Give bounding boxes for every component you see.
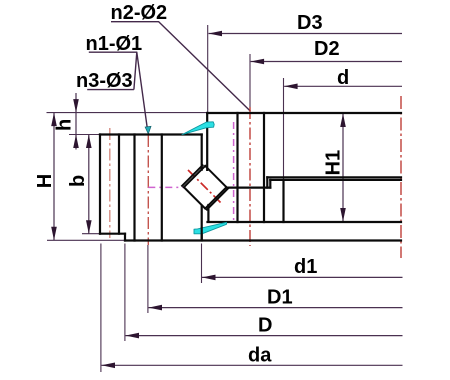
arrow da xyxy=(102,363,116,369)
raceway line upper-left (double) xyxy=(182,165,203,186)
dim D3 xyxy=(209,33,403,35)
svg-text:b: b xyxy=(67,175,89,187)
ext D1 vertical xyxy=(147,245,149,313)
dim H1 xyxy=(342,114,344,222)
ext top surface left xyxy=(47,112,208,114)
seam step horizontal xyxy=(227,187,271,189)
svg-text:H: H xyxy=(34,174,56,188)
ext inner-ring top left xyxy=(69,134,100,136)
dim da xyxy=(102,364,403,366)
ext bottom left (recess) xyxy=(82,233,100,235)
n3 hole right wall xyxy=(118,135,120,234)
dim h xyxy=(75,93,77,150)
arrows H xyxy=(51,113,57,127)
shelf and leader n2 xyxy=(111,22,251,112)
svg-text:n2-Ø2: n2-Ø2 xyxy=(111,2,168,24)
centerline n3 xyxy=(109,128,111,238)
centerline n2 xyxy=(249,107,251,246)
inner ring bore edge xyxy=(99,135,101,234)
svg-text:da: da xyxy=(248,345,272,367)
step vertical xyxy=(124,234,126,241)
n2 hole right wall xyxy=(263,113,265,222)
seam upper line xyxy=(267,176,401,178)
inner ring right face lower xyxy=(201,206,203,241)
outer ring top surface xyxy=(207,112,401,114)
dim D2 xyxy=(251,61,402,63)
magenta roller horizontal centerline xyxy=(148,186,183,188)
dim d1 xyxy=(202,276,403,278)
arrows b xyxy=(86,135,92,149)
centerline right section xyxy=(400,96,402,258)
ext D vertical xyxy=(124,244,126,342)
n1 hole left wall xyxy=(133,135,135,241)
ext da vertical xyxy=(100,244,102,373)
svg-text:D: D xyxy=(258,315,272,337)
inner ring top surface xyxy=(100,133,202,135)
magenta vertical pitch line xyxy=(233,122,235,221)
seam lower line xyxy=(270,179,401,181)
svg-text:n3-Ø3: n3-Ø3 xyxy=(76,70,133,92)
arrow d xyxy=(284,84,298,90)
roller bottom-right edge xyxy=(205,187,226,208)
roller top-left edge xyxy=(184,166,205,187)
n1 hole right wall xyxy=(161,135,163,241)
inner ring right face upper xyxy=(201,135,203,170)
shelf and leader n1 xyxy=(89,52,148,130)
svg-text:D3: D3 xyxy=(297,12,323,34)
roller bottom-left edge xyxy=(184,187,205,208)
pocket wall below roller xyxy=(207,205,209,222)
ext d vertical xyxy=(283,78,285,180)
seam jog left vertical xyxy=(266,177,268,187)
ext bottom surface left xyxy=(47,239,125,241)
ext d1 vertical xyxy=(201,244,203,284)
shelf n3 xyxy=(87,89,134,91)
svg-text:h: h xyxy=(54,119,76,131)
dim D xyxy=(126,335,403,337)
lower ring bore xyxy=(282,180,284,222)
svg-text:H1: H1 xyxy=(323,150,345,176)
raceway line lower-right (double) xyxy=(207,189,228,210)
seam jog right vertical xyxy=(269,180,271,188)
dim d xyxy=(284,85,402,87)
centerline n1 xyxy=(147,135,149,245)
svg-text:D1: D1 xyxy=(267,287,293,309)
connector n1 shelf to n3 shelf xyxy=(134,52,137,89)
dim b xyxy=(88,135,90,234)
arrow d1 xyxy=(202,275,216,281)
dim D1 xyxy=(149,307,403,309)
arrows h (outside) xyxy=(73,99,79,113)
roller axis diagonal xyxy=(188,170,222,204)
svg-text:d1: d1 xyxy=(294,256,317,278)
n2 hole left wall xyxy=(236,113,238,222)
dim H xyxy=(53,113,55,241)
roller top-right edge xyxy=(205,166,226,187)
bottom surface xyxy=(125,239,401,241)
arrow D xyxy=(126,333,140,339)
arrows H1 xyxy=(340,114,346,128)
seal top xyxy=(182,122,214,135)
seal bottom xyxy=(194,222,227,234)
arrow D2 xyxy=(251,59,265,65)
inner ring recess bottom xyxy=(100,233,125,235)
svg-text:D2: D2 xyxy=(314,38,340,60)
leader n1 arrowhead (teal) xyxy=(145,126,151,134)
ext D3 vertical xyxy=(207,25,209,113)
lower ring top / pocket floor xyxy=(208,221,402,223)
outer ring bore face upper xyxy=(206,113,208,170)
svg-text:d: d xyxy=(337,67,349,89)
ext D2 vertical xyxy=(249,54,251,107)
inner ring right face lower (redrawn over seal) xyxy=(201,227,203,241)
svg-text:n1-Ø1: n1-Ø1 xyxy=(86,33,143,55)
arrow D3 xyxy=(209,31,223,37)
arrow D1 xyxy=(149,305,163,311)
